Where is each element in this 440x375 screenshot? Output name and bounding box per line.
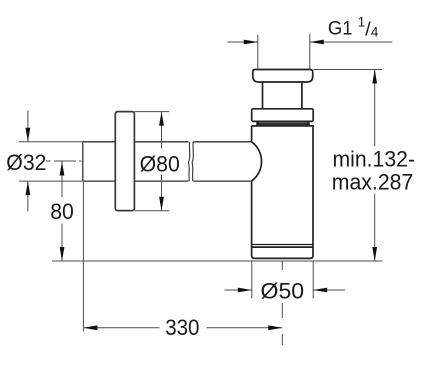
svg-text:Ø50: Ø50: [261, 279, 305, 304]
gasket end caps: [258, 122, 309, 125]
O32 top arrow (down): [26, 128, 31, 142]
inlet boss arc: [252, 142, 262, 181]
min-max dim line: [374, 70, 376, 262]
min-max bottom arrow (down): [372, 247, 377, 261]
80 dim line: [61, 162, 63, 262]
330 dim line: [83, 327, 282, 329]
wall plate flange: [115, 112, 134, 211]
inlet pipe: [83, 142, 252, 181]
O32 arrow shafts: [27, 111, 29, 212]
svg-text:80: 80: [50, 199, 74, 224]
O80 top arrow (up): [159, 112, 164, 126]
O50 right arrow (left-pointing): [313, 288, 327, 293]
bottom reference line: [52, 260, 383, 262]
O80 bottom arrow (down): [159, 197, 164, 211]
wall flange / trap body drawing: [252, 70, 314, 259]
min-max extension line: [314, 69, 383, 71]
svg-text:4: 4: [371, 25, 379, 40]
O50 extension lines: [252, 261, 313, 299]
G1 right arrow (left-pointing): [310, 40, 324, 45]
G1 left arrow (right-pointing): [244, 40, 258, 45]
G1 1/4 leaders: [228, 41, 393, 43]
pipe break squiggle right: [192, 142, 193, 181]
body bottom rim lines: [252, 244, 313, 246]
80 bottom arrow (down): [60, 247, 65, 261]
bottom cap top edge: [252, 246, 313, 248]
svg-text:1: 1: [358, 14, 366, 29]
gasket: [257, 122, 310, 125]
top cap nut: [253, 70, 313, 83]
330 right arrow (right-pointing): [268, 325, 282, 330]
min-max top arrow (up): [372, 70, 377, 84]
O32 extension lines: [19, 142, 83, 181]
svg-text:min.132-: min.132-: [333, 147, 416, 172]
G1 1/4 extension lines: [258, 34, 310, 70]
svg-text:330: 330: [165, 315, 199, 340]
svg-text:G1: G1: [328, 19, 353, 40]
threaded neck: [263, 82, 302, 109]
svg-text:max.287: max.287: [332, 170, 414, 195]
svg-text:Ø32: Ø32: [6, 150, 46, 175]
svg-text:Ø80: Ø80: [140, 151, 180, 176]
label G1 1/4: [328, 14, 379, 40]
trap centerline dashed: [281, 261, 283, 345]
pipe break squiggle left: [189, 142, 190, 181]
dash-dot centerline left: [46, 160, 82, 162]
locking ring: [252, 109, 314, 122]
O80 extension lines: [134, 112, 169, 211]
330 left arrow (left-pointing): [83, 325, 97, 330]
80 top arrow (up): [60, 162, 65, 176]
330 extension line (pipe end): [82, 182, 84, 332]
O50 arrow shafts: [225, 289, 346, 291]
O50 left arrow (right-pointing): [238, 288, 252, 293]
O80 dim line: [161, 112, 163, 211]
trap body: [252, 126, 313, 259]
O32 bottom arrow (up): [26, 181, 31, 195]
